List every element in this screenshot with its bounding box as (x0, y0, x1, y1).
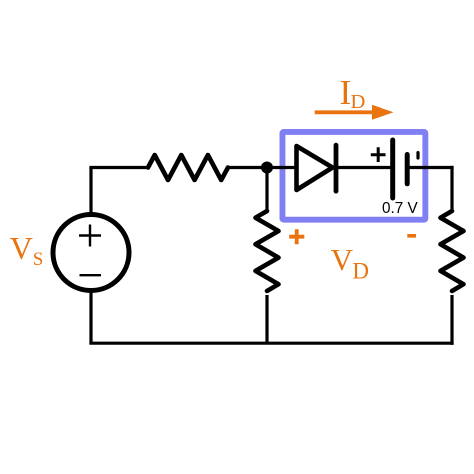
wire R1 to node A (228, 166, 267, 169)
battery short plate (405, 155, 410, 184)
wire node A to diode anode (267, 166, 297, 169)
VD plus sign (orange) (289, 229, 304, 244)
wire right vertical lower (450, 295, 453, 345)
resistor R3 (right, vertical) (441, 211, 464, 291)
svg-text:D: D (351, 91, 366, 113)
wire node A down to R2 (265, 168, 268, 212)
svg-text:0.7 V: 0.7 V (382, 200, 419, 217)
svg-text:V: V (331, 242, 354, 277)
voltage source VS circle (53, 215, 129, 291)
wire source bottom vertical (89, 293, 92, 344)
resistor R1 (series, horizontal) (148, 155, 228, 180)
resistor R2 (middle, vertical) (256, 211, 279, 291)
svg-text:S: S (33, 249, 44, 270)
battery plus label (371, 147, 386, 162)
battery long plate (390, 140, 395, 198)
wire top rail left (to resistor R1) (89, 166, 148, 169)
wire bottom rail (89, 342, 453, 345)
wire battery to right rail (407, 166, 454, 169)
wire diode to battery (336, 166, 392, 169)
diode D1 cathode bar (334, 145, 339, 191)
svg-text:I: I (340, 73, 352, 112)
wire right vertical upper (450, 166, 453, 211)
svg-text:V: V (10, 230, 33, 266)
VD minus sign (orange) (407, 234, 416, 238)
highlight box (blue) (282, 132, 425, 220)
current arrow ID (315, 110, 374, 114)
voltage source plus sign (79, 225, 101, 247)
wire top-left vertical (source to top rail) (89, 168, 92, 213)
voltage source minus sign (80, 274, 102, 276)
diode D1 triangle (297, 146, 333, 190)
wire R2 to bottom rail (265, 295, 268, 343)
battery tick mark (416, 153, 419, 158)
svg-text:D: D (352, 258, 369, 283)
node A (junction dot) (261, 162, 273, 174)
